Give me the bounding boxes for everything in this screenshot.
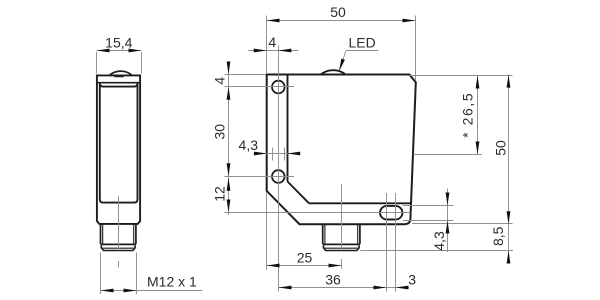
center / extension thin lines	[225, 16, 514, 292]
top edge extension right	[410, 75, 513, 77]
side view cap band line	[97, 82, 140, 84]
side view center line	[118, 196, 120, 251]
slot dim line vertical 1	[386, 193, 388, 292]
svg-text:4: 4	[212, 77, 228, 85]
inner mounting column line	[287, 76, 289, 182]
dimension 50 right	[508, 75, 510, 262]
dimension 30	[227, 163, 231, 176]
slot center line horizontal	[225, 212, 411, 214]
front view connector end cap	[324, 245, 360, 250]
svg-text:4,3: 4,3	[431, 231, 447, 251]
extension lines M12	[101, 253, 137, 295]
front view M12 connector barrel	[323, 225, 360, 245]
slot bottom extension	[403, 220, 454, 222]
side view inner housing	[100, 84, 138, 203]
dimension 8,5	[507, 251, 511, 264]
dimension M12 x 1	[101, 290, 203, 292]
dimension 4 left	[227, 62, 231, 75]
svg-text:25: 25	[297, 250, 313, 266]
left edge extension up	[266, 16, 268, 74]
dimension 25	[267, 265, 342, 267]
inner bottom plate line	[309, 202, 411, 204]
dimension 15,4	[97, 50, 142, 52]
mounting hole bottom	[272, 170, 285, 183]
dimension 4,3 slot	[447, 189, 449, 253]
side view connector end cap	[101, 245, 135, 250]
left dimension column	[228, 63, 230, 215]
svg-text:50: 50	[492, 140, 508, 156]
hole center vertical line	[278, 46, 280, 292]
LED leader	[346, 50, 379, 52]
side view body outline	[97, 75, 140, 224]
lens axis extension	[413, 154, 482, 156]
slot dim line vertical 2	[395, 193, 397, 292]
side view cap tab	[114, 75, 123, 77]
svg-text:36: 36	[325, 272, 341, 288]
svg-text:12: 12	[212, 186, 228, 202]
left edge extension down	[266, 193, 268, 271]
svg-text:4,3: 4,3	[239, 137, 259, 153]
svg-text:* 26,5: * 26,5	[460, 92, 476, 138]
dimension 12	[227, 178, 231, 191]
dimension 26,5	[477, 76, 479, 155]
slot top extension	[403, 205, 454, 207]
slot	[380, 206, 402, 220]
side view M12 connector barrel	[101, 224, 136, 244]
side view LED dome	[110, 71, 132, 75]
svg-text:50: 50	[330, 4, 346, 20]
LED dome	[321, 70, 346, 74]
bottom edge extension right	[412, 223, 513, 225]
svg-text:M12 x 1: M12 x 1	[147, 273, 197, 289]
hole top center line horizontal	[225, 86, 295, 88]
svg-text:4: 4	[268, 34, 276, 50]
svg-text:LED: LED	[349, 34, 376, 50]
dimension 4 top	[248, 50, 299, 52]
hole edge ticks	[272, 148, 274, 161]
svg-text:15,4: 15,4	[105, 34, 132, 50]
dimension 4,3 holes	[258, 153, 297, 155]
connector tip extension right	[360, 250, 513, 252]
body outline	[267, 75, 416, 225]
inner chamfer line	[288, 182, 310, 204]
extension lines 15,4	[97, 52, 142, 74]
top edge extension left	[225, 74, 267, 76]
mounting hole top	[272, 81, 285, 94]
dimension 36 and 3	[279, 287, 406, 289]
svg-text:8,5: 8,5	[490, 226, 506, 246]
hole bottom center line horizontal	[225, 176, 295, 178]
svg-text:3: 3	[408, 272, 416, 288]
svg-text:30: 30	[212, 124, 228, 140]
connector center line vertical	[341, 184, 343, 251]
right edge extension up	[415, 16, 417, 81]
dimension 50 top	[267, 20, 416, 22]
